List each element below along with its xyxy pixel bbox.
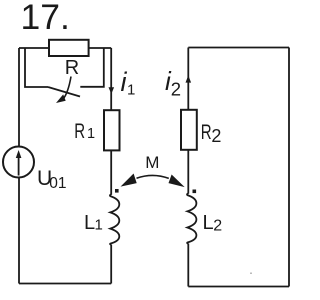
right loop right vertical — [288, 48, 290, 287]
source U01 circle — [3, 147, 34, 178]
wire left vertical upper (to source) — [18, 48, 20, 147]
resistor R1 — [104, 110, 120, 150]
wire top-left horizontal (left loop top, left of R) — [19, 47, 49, 49]
switch motion arrow — [56, 77, 71, 104]
current arrow i1 — [109, 87, 115, 94]
svg-text:M: M — [145, 153, 159, 172]
dot L1 polarity — [115, 189, 119, 193]
resistor R — [49, 40, 89, 56]
switch blade — [48, 87, 80, 97]
wire L2 to bottom — [187, 244, 189, 287]
svg-text:R: R — [201, 119, 212, 143]
dot L2 polarity — [193, 190, 197, 194]
svg-text:R: R — [74, 119, 85, 143]
wire switch branch right contact — [80, 48, 104, 87]
wire left vertical lower — [18, 178, 20, 284]
svg-text:R: R — [65, 57, 79, 79]
wire top horizontal right of R — [89, 47, 112, 49]
speck artifact — [250, 273, 252, 275]
resistor R2 — [181, 110, 197, 150]
inductor L2 — [187, 193, 196, 243]
right loop bottom wire — [188, 286, 289, 288]
svg-text:L: L — [203, 212, 214, 234]
wire L1 to bottom — [110, 245, 112, 284]
wire R1 to L1 — [110, 150, 112, 194]
right loop top wire — [188, 47, 289, 49]
mutual inductance double arrow — [121, 174, 185, 188]
inductor L1 — [110, 194, 119, 245]
svg-text:1: 1 — [87, 126, 95, 142]
svg-text:17.: 17. — [21, 0, 70, 37]
svg-text:1: 1 — [127, 82, 135, 99]
wire switch branch left vertical — [25, 48, 48, 87]
wire bottom of left loop — [19, 283, 111, 285]
wire right vertical of left loop (top to R1) — [110, 48, 112, 110]
svg-text:2: 2 — [171, 78, 181, 99]
svg-text:L: L — [84, 212, 95, 234]
current arrow i2 — [186, 75, 192, 82]
svg-text:2: 2 — [213, 218, 222, 235]
source arrow — [16, 150, 22, 176]
svg-text:1: 1 — [95, 217, 103, 234]
svg-text:2: 2 — [211, 126, 221, 146]
svg-text:01: 01 — [49, 175, 66, 192]
wire right loop left vertical (top to R2) — [187, 48, 189, 111]
wire R2 to L2 — [187, 150, 189, 194]
